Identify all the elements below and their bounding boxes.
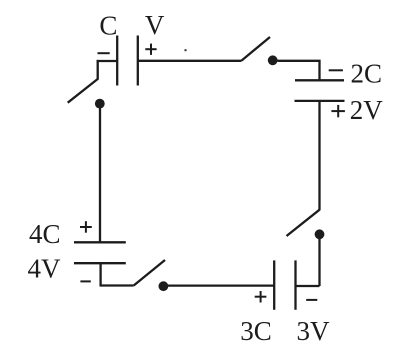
svg-text:V: V [145,10,165,40]
svg-text:3C: 3C [240,316,272,346]
svg-text:C: C [99,11,117,41]
svg-text:4C: 4C [29,219,61,249]
svg-text:4V: 4V [28,254,62,284]
svg-text:2C: 2C [351,58,383,88]
svg-text:2V: 2V [350,95,384,125]
svg-text:3V: 3V [297,316,331,346]
